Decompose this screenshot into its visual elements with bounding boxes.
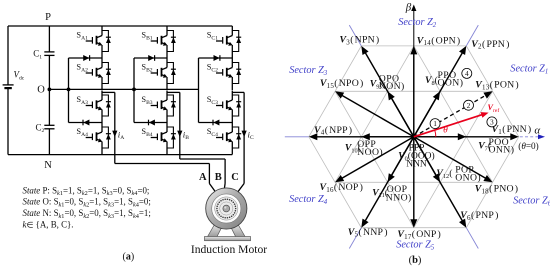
svg-text:Sector Z4: Sector Z4	[289, 194, 328, 206]
svg-text:V14 ( OPN ): V14 ( OPN )	[417, 35, 461, 47]
svg-text:k∈ {A, B, C}.: k∈ {A, B, C}.	[23, 220, 74, 230]
wire clamp vertical leg A	[68, 58, 70, 123]
svg-text:V12 (: V12 (	[436, 168, 452, 180]
vector V10 arrow	[361, 133, 414, 140]
svg-text:V8 (: V8 (	[425, 75, 438, 87]
svg-text:SC4: SC4	[207, 127, 218, 138]
svg-text:Sector Z2: Sector Z2	[398, 17, 437, 29]
label C2	[36, 122, 45, 134]
svg-text:SA2: SA2	[76, 63, 88, 74]
svg-text:1: 1	[433, 119, 437, 128]
label SA2	[76, 63, 88, 74]
label Sector Z3	[289, 65, 328, 77]
vector V1 arrow	[414, 133, 519, 140]
circled number 3	[487, 117, 497, 127]
junction O rail leg B	[132, 88, 136, 92]
svg-text:O: O	[37, 85, 45, 96]
beta axis	[411, 5, 416, 137]
svg-text:iA: iA	[118, 129, 125, 141]
svg-text:C1: C1	[33, 49, 42, 61]
vector V18 arrow	[414, 137, 493, 183]
vector V8 arrow	[414, 91, 440, 137]
vector V4 arrow	[309, 133, 414, 140]
svg-text:ONO): ONO)	[455, 172, 481, 183]
label V14 (OPN)	[417, 35, 461, 47]
svg-text:(b): (b)	[409, 255, 422, 266]
svg-text:2: 2	[467, 101, 471, 110]
label V4 (NPP)	[314, 125, 352, 137]
label V7 (POO/ONN)	[478, 137, 514, 156]
label SA4	[76, 127, 88, 138]
wire battery branch	[7, 26, 9, 155]
svg-text:SB1: SB1	[141, 31, 152, 42]
theta arc (red)	[435, 130, 436, 137]
svg-text:β: β	[405, 1, 412, 13]
induction motor	[205, 188, 251, 241]
vector V13 dashed arrow	[414, 91, 493, 137]
svg-text:SB2: SB2	[141, 63, 152, 74]
transistor SC1 with antiparallel diode	[216, 26, 241, 58]
vector V9 arrow	[388, 91, 414, 137]
circled number 4	[462, 68, 472, 78]
label V5 (NNP)	[348, 227, 388, 239]
svg-text:(θ=0): (θ=0)	[518, 141, 538, 151]
label V10 (OPP/NOO)	[345, 139, 383, 158]
node C label	[231, 172, 239, 183]
circled number 2	[464, 100, 474, 110]
label V17 (ONP)	[397, 229, 441, 241]
current arrow iB	[177, 129, 189, 141]
transistor SC3 with antiparallel diode	[216, 91, 241, 123]
label V12 (POP/ONO)	[436, 164, 481, 183]
label Induction Motor	[191, 243, 267, 256]
svg-text:V16 ( NOP ): V16 ( NOP )	[320, 182, 364, 194]
hexagon outer boundary	[309, 46, 519, 228]
wire capacitor branch	[48, 26, 50, 155]
transistor SB4 with antiparallel diode	[151, 123, 176, 155]
vector V12 arrow	[414, 137, 440, 183]
label beta	[405, 1, 412, 13]
vector V14 arrow	[410, 46, 417, 137]
svg-text:C: C	[231, 172, 239, 183]
svg-text:State N: Sk1 =0, Sk2 =0, Sk3 =: State N: Sk1 =0, Sk2 =0, Sk3 =1, Sk4 =1;	[23, 208, 151, 220]
label SA3	[76, 95, 88, 106]
label V18 (PNO)	[475, 184, 519, 196]
svg-text:C2: C2	[36, 122, 45, 134]
transistor SA3 with antiparallel diode	[86, 91, 111, 123]
sector boundary extensions (blue)	[285, 25, 479, 248]
svg-text:(a): (a)	[123, 251, 135, 262]
svg-text:Sector Z3: Sector Z3	[289, 65, 328, 77]
svg-text:B: B	[215, 172, 222, 183]
wire phase A output	[102, 92, 217, 193]
label SB1	[141, 31, 152, 42]
label SB4	[141, 127, 152, 138]
label Sector Z5	[396, 240, 435, 252]
svg-text:SA3: SA3	[76, 95, 88, 106]
label SB2	[141, 63, 152, 74]
label SA1	[76, 31, 88, 42]
vector V5 arrow	[361, 137, 414, 228]
vector V11 arrow	[388, 137, 414, 183]
svg-text:A: A	[199, 172, 207, 183]
svg-text:Sector Z5: Sector Z5	[396, 240, 435, 252]
svg-text:3: 3	[490, 118, 494, 127]
vector V16 arrow	[335, 137, 414, 183]
label SC2	[207, 63, 218, 74]
svg-text:N: N	[44, 160, 52, 171]
label Sector Z1	[510, 64, 548, 76]
label Sector Z6	[513, 196, 550, 208]
transistor SA4 with antiparallel diode	[86, 123, 111, 155]
label V13 (PON)	[475, 80, 519, 92]
svg-text:NNN: NNN	[406, 160, 427, 170]
wire phase C output	[232, 92, 244, 193]
node B label	[215, 172, 222, 183]
svg-text:SC2: SC2	[207, 63, 218, 74]
svg-text:P: P	[45, 12, 51, 23]
svg-text:NNO): NNO)	[386, 193, 412, 204]
inner hexagon grid	[361, 91, 466, 182]
vector V2 arrow	[414, 46, 467, 137]
label C1	[33, 49, 42, 61]
svg-text:iC: iC	[248, 129, 254, 141]
clamp diode DB2	[134, 120, 167, 126]
vector V3 arrow	[361, 46, 414, 137]
svg-text:Sector Z6: Sector Z6	[513, 196, 550, 208]
svg-text:Sector Z1: Sector Z1	[510, 64, 548, 76]
triangular grid spokes	[335, 46, 493, 228]
transistor SA1 with antiparallel diode	[86, 26, 111, 58]
label SC1	[207, 31, 218, 42]
node O	[37, 85, 51, 96]
transistor SB1 with antiparallel diode	[151, 26, 176, 58]
svg-text:V18 ( PNO ): V18 ( PNO )	[475, 184, 519, 196]
wire O rail	[49, 88, 198, 90]
svg-text:NON): NON)	[379, 81, 405, 92]
transistor SC2 with antiparallel diode	[216, 58, 241, 90]
svg-text:SB4: SB4	[141, 127, 152, 138]
svg-text:SC1: SC1	[207, 31, 218, 42]
clamp diode DC1	[199, 55, 233, 61]
svg-text:State P: Sk1 =1, Sk2 =1, Sk3 =: State P: Sk1 =1, Sk2 =1, Sk3 =0, Sk4 =0;	[23, 185, 150, 197]
transistor SC4 with antiparallel diode	[216, 123, 241, 155]
clamp diode DA2	[69, 120, 103, 126]
battery Vdc	[3, 85, 14, 88]
label V6 (PNP)	[460, 210, 498, 222]
vector V15 arrow	[335, 91, 414, 137]
capacitor C2	[44, 125, 54, 129]
svg-text:V4 ( NPP ): V4 ( NPP )	[314, 125, 352, 137]
label SC4	[207, 127, 218, 138]
clamp diode DC2	[199, 120, 233, 126]
svg-text:Induction Motor: Induction Motor	[191, 243, 267, 256]
label SB3	[141, 95, 152, 106]
label Sector Z4	[289, 194, 328, 206]
svg-text:V1 ( PNN ): V1 ( PNN )	[492, 124, 532, 136]
label V3 (NPN)	[340, 35, 380, 47]
svg-text:V15 ( NPO ): V15 ( NPO )	[320, 78, 364, 90]
Vref arrow (red)	[414, 112, 489, 137]
label theta=0	[518, 141, 538, 151]
clamp diode DA1	[69, 55, 103, 61]
wire clamp vertical leg B	[133, 58, 135, 123]
svg-text:V3 ( NPN ): V3 ( NPN )	[340, 35, 380, 47]
node A label	[199, 172, 207, 183]
capacitor C1	[44, 52, 54, 56]
svg-text:OON): OON)	[438, 78, 464, 89]
circled number 1	[430, 119, 440, 129]
label Vref (red)	[488, 103, 500, 114]
transistor SB2 with antiparallel diode	[151, 58, 176, 90]
current arrow iC	[242, 129, 254, 141]
svg-text:SA4: SA4	[76, 127, 88, 138]
svg-text:SC3: SC3	[207, 95, 218, 106]
label theta (red)	[443, 126, 448, 136]
label alpha	[534, 124, 540, 136]
svg-text:V6 ( PNP ): V6 ( PNP )	[460, 210, 498, 222]
svg-text:NOO): NOO)	[357, 147, 383, 158]
vector V6 arrow	[414, 137, 467, 228]
label SC3	[207, 95, 218, 106]
label V0 (PPP/OOO/NNN)	[398, 143, 434, 169]
label (b)	[409, 255, 422, 266]
label V16 (NOP)	[320, 182, 364, 194]
transistor SB3 with antiparallel diode	[151, 91, 176, 123]
label V8 (PPO/OON)	[425, 70, 463, 89]
svg-text:V13 ( PON ): V13 ( PON )	[475, 80, 519, 92]
svg-text:V5 ( NNP ): V5 ( NNP )	[348, 227, 388, 239]
current arrow iA	[112, 129, 124, 141]
svg-text:SB3: SB3	[141, 95, 152, 106]
transistor SA2 with antiparallel diode	[86, 58, 111, 90]
label V15 (NPO)	[320, 78, 364, 90]
label V11 (OOP/NNO)	[372, 184, 411, 204]
label Sector Z2	[398, 17, 437, 29]
junction O rail leg A	[67, 88, 71, 92]
wire N rail	[8, 154, 232, 156]
alpha axis dashed extension	[520, 134, 545, 139]
svg-text:State O: Sk1 =0, Sk2 =1, Sk3 =: State O: Sk1 =0, Sk2 =1, Sk3 =1, Sk4 =0;	[23, 197, 151, 209]
svg-text:Vdc: Vdc	[14, 70, 25, 82]
label (a)	[123, 251, 135, 262]
vector V7 arrow	[414, 133, 467, 140]
label V1 (PNN)	[492, 124, 532, 136]
vector V17 arrow	[410, 137, 417, 228]
svg-text:Vref: Vref	[488, 103, 500, 114]
node N	[44, 160, 52, 171]
svg-text:α: α	[534, 124, 540, 136]
svg-text:θ: θ	[443, 126, 448, 136]
state table text	[23, 185, 151, 229]
svg-text:ONN): ONN)	[489, 145, 515, 156]
wire clamp vertical leg C	[198, 58, 200, 123]
wire phase B output	[167, 92, 225, 193]
wire P rail	[8, 25, 232, 27]
svg-text:4: 4	[465, 69, 469, 78]
label V9 (OPO/NON)	[370, 73, 405, 92]
svg-text:V2 ( PPN ): V2 ( PPN )	[471, 39, 509, 51]
svg-text:SA1: SA1	[76, 31, 88, 42]
svg-text:iB: iB	[183, 129, 189, 141]
label Vdc	[14, 70, 25, 82]
label V2 (PPN)	[471, 39, 509, 51]
node P	[45, 12, 51, 23]
clamp diode DB1	[134, 55, 167, 61]
